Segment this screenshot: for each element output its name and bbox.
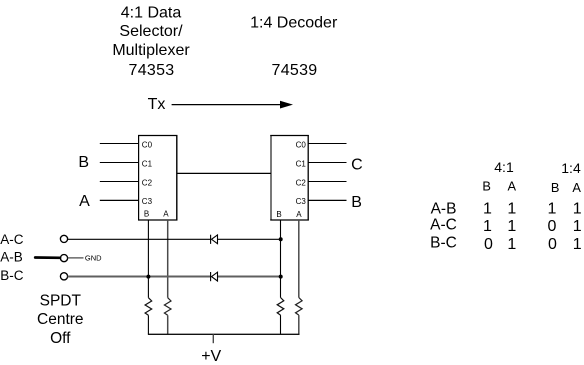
svg-text:C2: C2 xyxy=(296,178,307,187)
wire: U1 input C0 xyxy=(100,143,139,145)
svg-text:B: B xyxy=(144,209,149,218)
svg-text:C3: C3 xyxy=(296,197,307,206)
wire: U2 output C3 xyxy=(308,199,346,201)
svg-text:A: A xyxy=(79,193,90,210)
wire: U1 input C2 xyxy=(100,181,139,183)
wire: +V bottom rail xyxy=(148,333,300,335)
svg-text:1: 1 xyxy=(573,218,582,235)
label: 1:4 Decoder 74539 xyxy=(250,15,338,79)
resistor R4 xyxy=(296,298,303,316)
wire: U2 output C1 xyxy=(308,162,346,164)
svg-text:B: B xyxy=(351,194,362,211)
svg-text:SPDT: SPDT xyxy=(40,292,82,309)
wire: R3 bottom leg xyxy=(280,315,282,334)
wire: U2 output C0 xyxy=(308,143,346,145)
svg-text:74539: 74539 xyxy=(272,62,318,79)
label: truth table column headers B A B A xyxy=(482,179,581,196)
svg-text:Selector/: Selector/ xyxy=(119,23,183,40)
wire: R2 bottom leg xyxy=(167,315,169,334)
node: junction B-C / U1-B xyxy=(146,275,150,279)
wire: U2 pin A vertical xyxy=(298,220,300,298)
node: junction B-C / U2-B xyxy=(279,275,283,279)
svg-text:0: 0 xyxy=(548,218,557,235)
svg-text:Multiplexer: Multiplexer xyxy=(112,42,190,59)
svg-text:1:4 Decoder: 1:4 Decoder xyxy=(250,15,338,32)
svg-text:C3: C3 xyxy=(142,197,153,206)
svg-text:4:1 Data: 4:1 Data xyxy=(121,5,182,22)
svg-text:B: B xyxy=(78,154,89,171)
label: 4:1 Data Selector/Multiplexer 74353 xyxy=(112,5,190,79)
svg-text:4:1: 4:1 xyxy=(494,159,514,175)
wire: U1 input C3 xyxy=(100,199,139,201)
svg-text:C: C xyxy=(351,156,363,173)
svg-text:C2: C2 xyxy=(142,178,153,187)
svg-text:1: 1 xyxy=(573,201,582,218)
svg-text:A: A xyxy=(572,180,581,195)
svg-text:+V: +V xyxy=(201,348,221,365)
svg-text:C1: C1 xyxy=(296,159,307,168)
svg-text:1: 1 xyxy=(573,236,582,253)
svg-text:Centre: Centre xyxy=(37,311,84,328)
wire: A-C row to U2 pin B xyxy=(68,238,211,240)
svg-text:B: B xyxy=(276,210,281,219)
svg-text:C0: C0 xyxy=(296,140,307,149)
switch SW1: contact A-C xyxy=(60,235,67,242)
svg-text:GND: GND xyxy=(85,254,102,263)
wire: R1 bottom leg xyxy=(147,315,149,334)
svg-text:Tx: Tx xyxy=(148,96,166,113)
svg-text:C0: C0 xyxy=(142,140,153,149)
svg-text:1: 1 xyxy=(507,201,516,218)
wire: +V stub xyxy=(212,334,214,343)
switch SW1: lever on A-B xyxy=(35,256,60,259)
op-amp U1: multiplexer 74353 box xyxy=(138,135,177,221)
label: truth table row A-C xyxy=(430,217,582,235)
diode D2 xyxy=(211,272,218,281)
svg-text:A: A xyxy=(508,179,517,194)
wire: Tx direction arrow xyxy=(172,101,293,109)
switch SW1: contact B-C xyxy=(60,273,67,280)
svg-text:Off: Off xyxy=(50,330,71,347)
pin labels U1: C0 C1 C2 C3 B A xyxy=(142,140,169,218)
switch SW1: contact A-B xyxy=(60,255,67,262)
resistor R2 xyxy=(164,298,171,316)
svg-text:B-C: B-C xyxy=(0,268,24,283)
wire: U2 pin B vertical xyxy=(280,220,282,298)
wire: R4 bottom leg xyxy=(298,315,300,334)
svg-text:0: 0 xyxy=(484,236,493,253)
label: truth table row B-C xyxy=(430,234,582,252)
op-amp U2: decoder 74539 box xyxy=(270,135,309,221)
label: SPDT Centre Off xyxy=(37,292,84,347)
svg-text:B-C: B-C xyxy=(430,234,457,251)
node: junction A-C / U2-B xyxy=(279,237,283,241)
svg-text:A-B: A-B xyxy=(0,250,23,265)
pin labels U2: C0 C1 C2 C3 B A xyxy=(276,140,306,219)
svg-text:B: B xyxy=(482,179,491,194)
svg-text:A: A xyxy=(163,209,169,218)
wire: U1 pin B vertical xyxy=(147,220,149,298)
svg-text:1:4: 1:4 xyxy=(561,160,581,176)
wire: U1 pin A vertical xyxy=(167,220,169,298)
wire: U2 output C2 xyxy=(308,181,346,183)
wire: U1 input C1 xyxy=(100,162,139,164)
svg-text:A-C: A-C xyxy=(0,232,24,247)
svg-text:1: 1 xyxy=(507,218,516,235)
diode D1 xyxy=(211,235,218,244)
wire: U1 to U2 link xyxy=(177,172,271,174)
resistor R1 xyxy=(145,298,152,316)
wire: A-B contact to GND xyxy=(68,257,84,259)
svg-text:1: 1 xyxy=(548,201,557,218)
label: truth table row A-B xyxy=(431,200,582,217)
wire: B-C row to U2 pin B xyxy=(68,276,211,278)
svg-text:A-C: A-C xyxy=(430,217,457,234)
svg-text:B: B xyxy=(551,180,560,195)
svg-text:A: A xyxy=(296,210,302,219)
svg-text:0: 0 xyxy=(548,236,557,253)
svg-text:1: 1 xyxy=(483,218,492,235)
svg-text:1: 1 xyxy=(507,236,516,253)
svg-text:C1: C1 xyxy=(142,159,153,168)
svg-text:74353: 74353 xyxy=(129,62,175,79)
svg-text:1: 1 xyxy=(483,201,492,218)
svg-text:A-B: A-B xyxy=(431,200,457,217)
resistor R3 xyxy=(277,298,284,316)
